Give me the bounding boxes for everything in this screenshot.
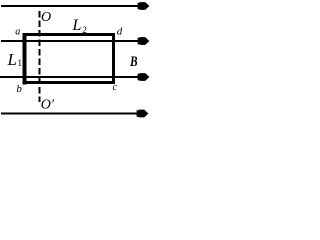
background xyxy=(0,0,150,120)
coil loop abcd xyxy=(25,35,114,83)
svg-text:B: B xyxy=(129,54,137,70)
svg-text:a: a xyxy=(15,26,20,37)
field line B top (wire) xyxy=(1,2,149,10)
svg-text:c: c xyxy=(113,82,118,93)
svg-text:d: d xyxy=(117,25,123,37)
svg-text:O′: O′ xyxy=(41,98,55,113)
svg-text:O: O xyxy=(41,10,51,25)
svg-text:2: 2 xyxy=(82,25,87,35)
field line B upper-middle (wire) xyxy=(1,37,149,45)
svg-text:L: L xyxy=(72,17,82,34)
coil side ab (left edge, thicker) xyxy=(23,33,27,85)
svg-text:1: 1 xyxy=(18,58,23,68)
svg-text:L: L xyxy=(7,50,17,69)
field line B bottom (wire) xyxy=(1,110,148,118)
value label L2 xyxy=(72,17,87,35)
value label L1 xyxy=(7,50,23,69)
svg-text:b: b xyxy=(16,83,22,95)
axis OO' (dashed) xyxy=(39,11,41,102)
field line B lower-middle (wire) xyxy=(0,73,149,81)
